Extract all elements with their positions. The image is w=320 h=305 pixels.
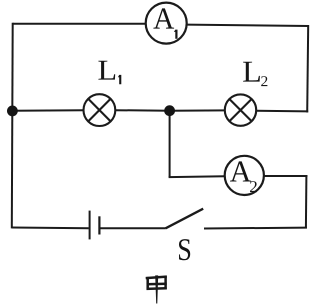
wire lamp row: left dot to L1 xyxy=(12,109,83,112)
label L2 xyxy=(243,62,267,86)
wire bottom rail right segment (switch to corner) xyxy=(204,227,307,230)
wire right rail upper segment xyxy=(307,25,308,113)
wire right rail lower segment xyxy=(305,175,308,229)
ammeter A2 xyxy=(225,156,264,195)
wire A2 to right rail xyxy=(264,175,308,177)
label 甲 (drawn strokes) xyxy=(146,275,167,303)
wire middle branch vertical from junction xyxy=(169,111,171,178)
wire bottom rail middle segment (battery to switch) xyxy=(100,227,166,229)
label S xyxy=(179,239,190,260)
switch S lever xyxy=(166,209,204,229)
label L1 xyxy=(98,61,121,84)
lamp L2 xyxy=(225,94,256,125)
node: junction dot on lamp row (left rail) xyxy=(7,106,18,117)
ammeter A1 xyxy=(146,3,187,44)
wire lamp row: junction to L2 xyxy=(170,109,225,111)
wire middle branch horizontal to A2 xyxy=(169,175,225,178)
wire lamp row: L2 to right rail xyxy=(256,110,308,113)
node: junction dot on lamp row (middle, branch to A2) xyxy=(164,105,175,116)
lamp L1 xyxy=(84,94,116,126)
wire top rail left segment xyxy=(13,23,146,25)
wire left rail xyxy=(11,23,14,229)
battery cell: short plate xyxy=(98,216,100,234)
wire lamp row: L1 to junction xyxy=(115,109,169,112)
battery cell: long plate xyxy=(89,211,91,240)
wire top rail right segment xyxy=(187,25,309,26)
wire bottom rail left segment (corner to battery) xyxy=(12,227,89,230)
